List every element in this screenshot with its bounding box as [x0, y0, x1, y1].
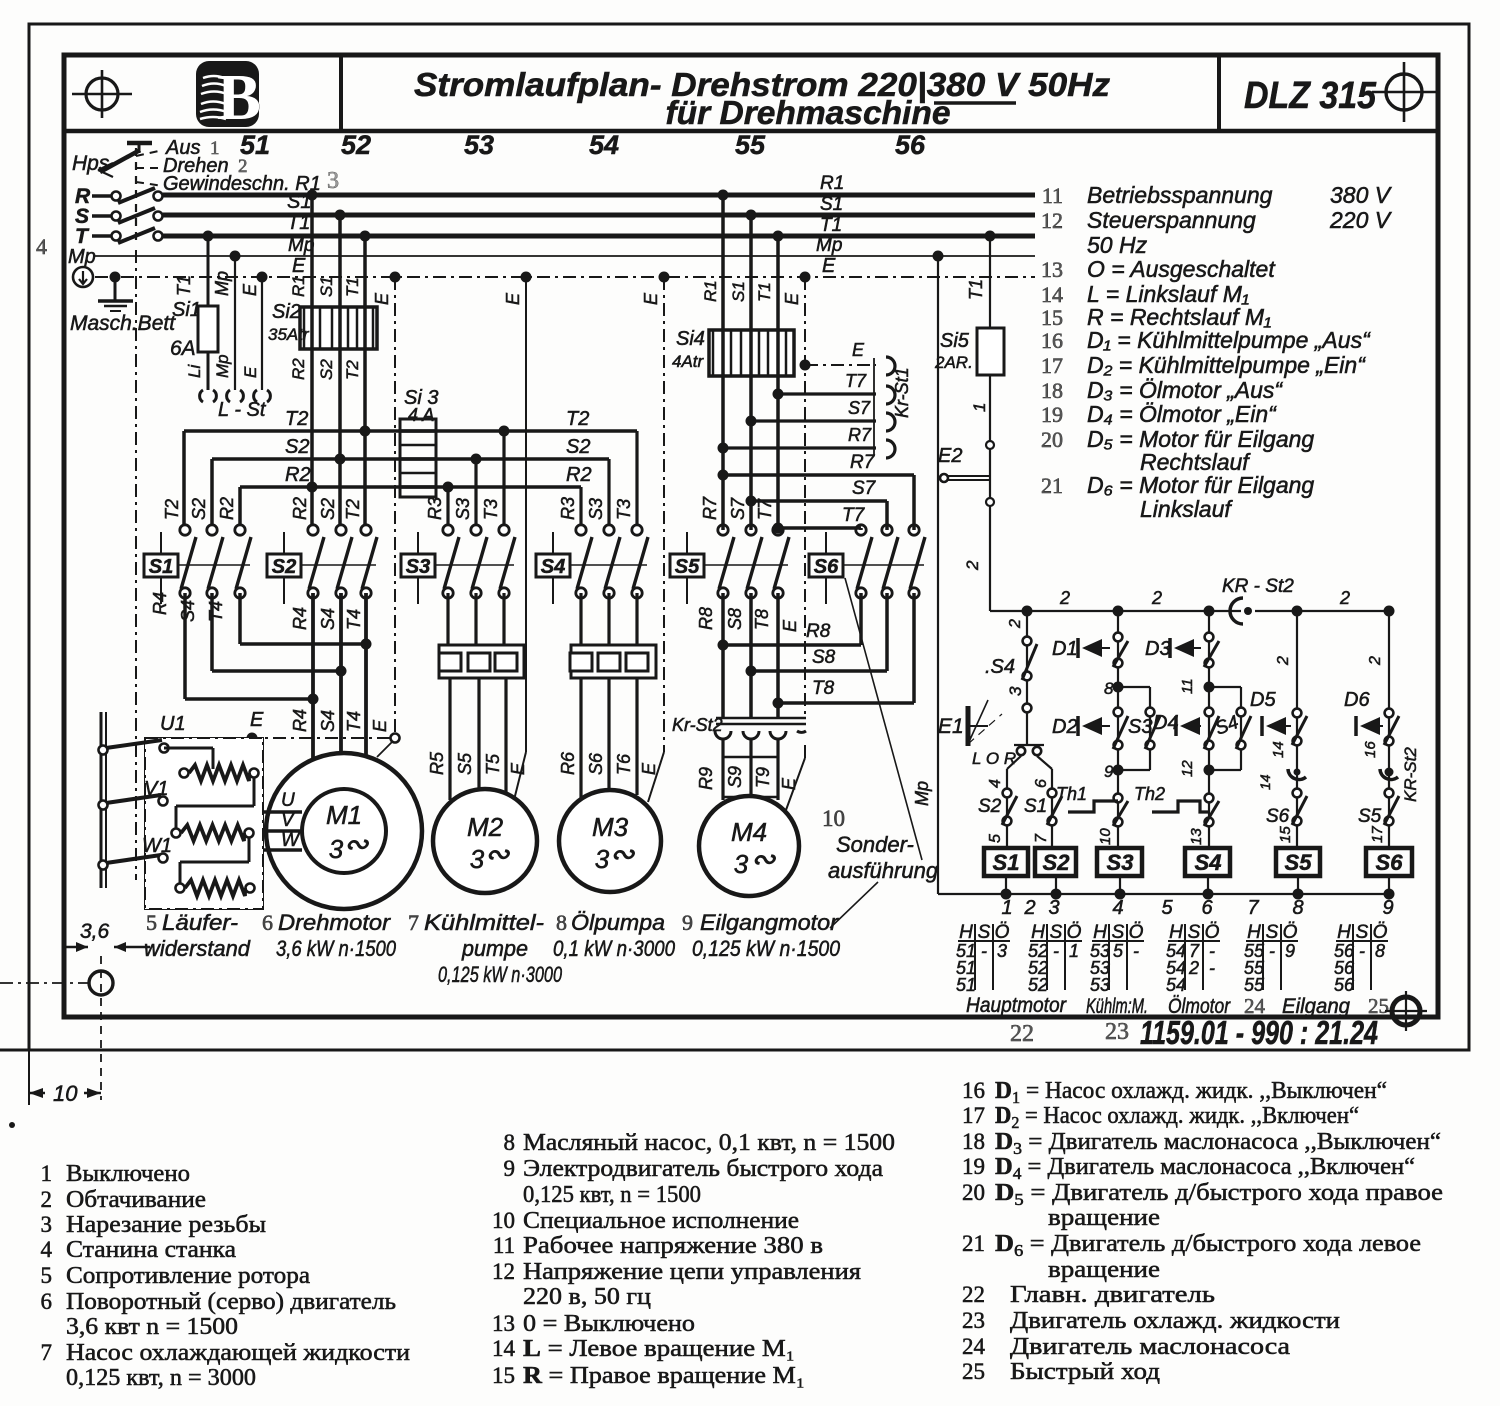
contactor S6 contact at x=887	[882, 525, 892, 535]
svg-text:Si5: Si5	[940, 330, 970, 352]
control column D6 S5	[1388, 611, 1390, 848]
svg-text:24: 24	[962, 1334, 986, 1359]
svg-text:DLZ 315: DLZ 315	[1244, 75, 1377, 117]
svg-text:12: 12	[492, 1259, 515, 1284]
svg-text:Betriebsspannung: Betriebsspannung	[1087, 182, 1273, 208]
svg-text:22: 22	[1010, 1021, 1034, 1047]
wire R4 from S1	[183, 593, 187, 699]
svg-text:2: 2	[1007, 619, 1024, 629]
svg-text:2: 2	[1059, 588, 1070, 608]
svg-text:4: 4	[1112, 897, 1123, 919]
svg-text:15: 15	[1041, 305, 1063, 330]
hole centerline vertical	[100, 956, 102, 1100]
svg-text:3: 3	[329, 834, 344, 864]
mounting hole	[89, 971, 113, 995]
svg-text:вращение: вращение	[1048, 1205, 1160, 1231]
svg-text:R1: R1	[289, 275, 308, 297]
svg-text:Kr-St1: Kr-St1	[892, 367, 912, 418]
svg-text:T1: T1	[966, 279, 986, 300]
svg-text:S9: S9	[725, 766, 745, 788]
svg-text:E: E	[852, 340, 865, 360]
svg-text:T4: T4	[344, 609, 364, 630]
svg-text:R3: R3	[425, 497, 445, 520]
motor M3	[559, 790, 661, 892]
svg-text:53: 53	[1090, 975, 1110, 995]
svg-text:S4: S4	[318, 608, 338, 630]
svg-text:Kühlmittel-: Kühlmittel-	[424, 910, 544, 935]
thermal overload relay M3	[579, 593, 582, 645]
rotor switch blade 3	[99, 861, 108, 870]
svg-text:5: 5	[1113, 941, 1124, 961]
svg-text:8: 8	[556, 910, 567, 935]
svg-text:W1: W1	[142, 835, 172, 857]
svg-text:Главн. двигатель: Главн. двигатель	[1010, 1282, 1215, 1308]
svg-text:52: 52	[341, 130, 371, 160]
svg-text:L = Левое вращение М₁: L = Левое вращение М₁	[523, 1336, 795, 1362]
svg-text:12: 12	[1041, 208, 1063, 233]
svg-text:S6: S6	[1266, 806, 1290, 827]
svg-text:S5: S5	[1285, 850, 1313, 875]
fuse Si1 6A	[198, 306, 218, 352]
ground symbol	[73, 267, 93, 287]
svg-text:S: S	[1266, 922, 1279, 943]
svg-text:55: 55	[1244, 975, 1265, 995]
svg-text:52: 52	[1028, 975, 1048, 995]
svg-text:T6: T6	[614, 753, 634, 775]
svg-text:16: 16	[1041, 328, 1063, 353]
main switch Hps lever	[100, 150, 140, 172]
svg-text:S1: S1	[149, 556, 173, 578]
wire T4 from S1	[238, 593, 242, 644]
wire T1 drop to Si2	[363, 236, 367, 530]
svg-text:2AR.: 2AR.	[934, 353, 973, 372]
svg-text:9: 9	[1382, 897, 1393, 919]
wire T1 drop to Si5	[989, 236, 991, 611]
underline 380V	[934, 101, 1016, 105]
contactor S6 contact at x=914	[909, 525, 919, 535]
svg-text:R4: R4	[290, 709, 310, 732]
svg-text:S2: S2	[189, 498, 209, 520]
svg-text:Нарезание резьбы: Нарезание резьбы	[66, 1212, 266, 1238]
svg-text:pumpe: pumpe	[461, 936, 528, 961]
svg-text:S1: S1	[317, 276, 336, 297]
svg-text:R7: R7	[700, 496, 720, 520]
svg-text:S5: S5	[675, 556, 700, 578]
inner border frame	[64, 55, 1438, 1017]
control column D3 Th2 S4	[1208, 611, 1210, 848]
svg-text:1: 1	[1001, 897, 1012, 919]
svg-text:3,6: 3,6	[80, 920, 110, 943]
svg-text:W: W	[281, 830, 301, 851]
svg-text:S2: S2	[1043, 850, 1071, 875]
wire E col54	[663, 277, 665, 752]
svg-text:S6: S6	[1376, 850, 1404, 875]
svg-text:E: E	[641, 292, 661, 305]
contactor S2 coil box	[267, 554, 301, 577]
svg-text:S5: S5	[455, 752, 475, 775]
wire S1 drop to Si2	[338, 215, 342, 530]
svg-text:∾: ∾	[750, 843, 776, 876]
rotor switch blade 2	[99, 801, 108, 810]
svg-text:7: 7	[1033, 833, 1050, 843]
svg-text:3: 3	[595, 844, 610, 874]
contactor S6 linkage	[843, 564, 924, 566]
svg-text:1159.01 - 990 : 21.24: 1159.01 - 990 : 21.24	[1140, 1014, 1378, 1051]
svg-text:21: 21	[962, 1231, 985, 1256]
svg-text:7: 7	[41, 1340, 53, 1365]
connector Kr-St1	[873, 358, 875, 455]
svg-text:5: 5	[146, 910, 157, 935]
coil S6	[1366, 848, 1412, 876]
svg-text:.S4: .S4	[985, 656, 1015, 678]
svg-text:S: S	[1356, 922, 1369, 943]
rail E dash-dot	[95, 276, 1035, 278]
svg-text:Kühlm:M.: Kühlm:M.	[1086, 995, 1148, 1018]
svg-text:T7: T7	[842, 505, 866, 526]
svg-text:O = Ausgeschaltet: O = Ausgeschaltet	[1087, 256, 1276, 282]
svg-text:Läufer-: Läufer-	[162, 910, 238, 935]
svg-text:-: -	[1269, 941, 1275, 961]
svg-text:4 A: 4 A	[408, 405, 434, 425]
switch blade T	[118, 228, 155, 243]
svg-text:S3: S3	[586, 498, 606, 520]
contactor S2 linkage	[301, 564, 376, 566]
thermal overload relay M2	[446, 593, 449, 645]
contactor S6 coil box	[809, 554, 843, 577]
svg-text:T9: T9	[753, 767, 773, 788]
svg-text:-: -	[1133, 941, 1139, 961]
svg-text:R2: R2	[217, 497, 237, 520]
svg-text:3: 3	[997, 941, 1007, 961]
svg-text:Mp: Mp	[212, 271, 232, 296]
svg-text:380 V: 380 V	[1330, 182, 1393, 208]
rail T1	[163, 234, 1035, 239]
svg-text:51: 51	[956, 975, 976, 995]
svg-text:3,6 квт n = 1500: 3,6 квт n = 1500	[66, 1314, 238, 1340]
svg-text:Th1: Th1	[1056, 784, 1087, 804]
svg-text:2: 2	[1023, 897, 1035, 919]
svg-text:T3: T3	[614, 499, 634, 520]
svg-text:-: -	[981, 941, 987, 961]
svg-text:S2: S2	[566, 436, 590, 458]
svg-text:R1: R1	[701, 280, 720, 302]
svg-text:6: 6	[1201, 897, 1213, 919]
svg-text:S2: S2	[272, 556, 296, 578]
svg-text:0,125 квт, n = 3000: 0,125 квт, n = 3000	[66, 1365, 256, 1391]
contactor S1 coil box	[144, 554, 178, 577]
svg-text:Ö: Ö	[1129, 922, 1144, 943]
fuse Si5 2AR	[977, 328, 1004, 375]
svg-text:Масляный насос, 0,1 квт, n = 1: Масляный насос, 0,1 квт, n = 1500	[523, 1130, 895, 1156]
svg-text:10: 10	[492, 1208, 515, 1233]
wire R1 drop to Si2	[310, 195, 314, 530]
svg-text:E: E	[372, 292, 392, 305]
registration crosshair left	[86, 78, 118, 110]
svg-text:T3: T3	[481, 499, 501, 520]
svg-text:R7: R7	[848, 425, 872, 445]
contactor S6 contact at x=861	[856, 525, 866, 535]
svg-text:14: 14	[492, 1336, 516, 1361]
svg-text:14: 14	[1270, 741, 1287, 758]
svg-text:S3: S3	[406, 556, 430, 578]
svg-text:2: 2	[963, 560, 982, 571]
svg-text:E: E	[822, 255, 836, 277]
wire E to Kr-St1	[805, 364, 876, 366]
svg-text:B: B	[217, 61, 261, 134]
svg-text:∾: ∾	[343, 828, 369, 861]
svg-text:T1: T1	[174, 275, 194, 296]
svg-text:19: 19	[1041, 402, 1063, 427]
wire S1 drop to Si4	[749, 215, 753, 530]
svg-text:Linkslauf: Linkslauf	[1140, 496, 1233, 522]
svg-text:50 Hz: 50 Hz	[1087, 232, 1148, 258]
wire Mp drop control	[937, 256, 939, 894]
svg-text:13: 13	[492, 1311, 515, 1336]
svg-text:11: 11	[1179, 678, 1196, 694]
svg-text:R6: R6	[558, 751, 578, 775]
rail S1	[163, 213, 1035, 218]
svg-text:R1: R1	[820, 173, 844, 194]
svg-text:9: 9	[504, 1156, 516, 1181]
svg-text:D5: D5	[1250, 689, 1276, 711]
svg-text:13: 13	[1041, 257, 1063, 282]
svg-text:14: 14	[1257, 774, 1273, 790]
contactor S3 coil box	[401, 554, 435, 577]
svg-text:Напряжение цепи управления: Напряжение цепи управления	[523, 1259, 861, 1285]
svg-text:35Atr: 35Atr	[268, 325, 310, 344]
rotor resistor 1	[180, 769, 189, 778]
svg-text:R4: R4	[150, 592, 170, 615]
svg-text:вращение: вращение	[1048, 1257, 1160, 1283]
svg-text:S2: S2	[978, 796, 1002, 817]
M1 stator terminals U V W	[264, 810, 302, 814]
contactor S4 linkage	[570, 564, 647, 566]
wire T8	[776, 593, 780, 718]
svg-text:V1: V1	[144, 778, 168, 800]
rotor switch blade 1	[99, 746, 108, 755]
svg-text:3: 3	[327, 168, 339, 194]
svg-text:Ö: Ö	[1067, 922, 1082, 943]
svg-text:R2: R2	[566, 464, 592, 486]
svg-text:15: 15	[492, 1363, 515, 1388]
svg-text:D₃ = Ölmotor „Aus“: D₃ = Ölmotor „Aus“	[1087, 377, 1283, 403]
svg-text:S1: S1	[993, 850, 1020, 875]
contactor S2 contact at x=341	[336, 525, 346, 535]
wire S7 branch to S6	[751, 499, 887, 503]
rotor resistor 3	[176, 884, 185, 893]
hole centerline horizontal	[0, 982, 90, 984]
svg-text:S8: S8	[725, 608, 745, 630]
svg-text:11: 11	[493, 1233, 515, 1258]
dimension 10	[29, 1092, 45, 1095]
svg-text:10: 10	[53, 1081, 78, 1106]
svg-text:Mp: Mp	[68, 246, 96, 268]
wire E into M2	[514, 752, 526, 800]
svg-text:L - St: L - St	[218, 399, 267, 421]
svg-text:0 = Выключено: 0 = Выключено	[523, 1311, 695, 1337]
svg-text:ausführung: ausführung	[828, 858, 939, 883]
svg-text:6: 6	[41, 1289, 53, 1314]
svg-text:T2: T2	[343, 499, 363, 520]
rotor resistor 2	[172, 829, 181, 838]
svg-text:E: E	[782, 292, 802, 305]
svg-text:20: 20	[962, 1180, 985, 1205]
wire E drop	[261, 277, 263, 390]
svg-text:4: 4	[41, 1237, 53, 1262]
contactor S3 contact at x=448	[443, 525, 453, 535]
svg-text:2: 2	[1275, 656, 1292, 666]
svg-text:T4: T4	[206, 601, 226, 622]
leader line Sonderausfuehrung	[845, 578, 922, 860]
svg-text:H: H	[1337, 922, 1351, 943]
contactor S1 contact at x=240	[235, 525, 245, 535]
outer border frame	[29, 24, 1469, 1050]
svg-text:56: 56	[1334, 975, 1355, 995]
registration crosshair right	[1386, 74, 1422, 110]
wire R8	[721, 593, 725, 718]
control column D1 Th1 S3	[1117, 611, 1119, 848]
svg-text:Steuerspannung: Steuerspannung	[1087, 207, 1256, 233]
svg-text:R3: R3	[558, 497, 578, 520]
contactor S3 linkage	[435, 564, 514, 566]
svg-text:5: 5	[41, 1263, 53, 1288]
svg-text:Eilgangmotor: Eilgangmotor	[700, 910, 840, 935]
svg-text:T: T	[75, 225, 90, 248]
svg-text:4Atr: 4Atr	[672, 352, 705, 371]
contactor S2 contact at x=313	[308, 525, 318, 535]
svg-text:KR - St2: KR - St2	[1222, 576, 1294, 597]
svg-text:18: 18	[1041, 378, 1063, 403]
svg-text:4: 4	[987, 779, 1004, 788]
contactor S4 contact at x=609	[604, 525, 614, 535]
svg-text:-: -	[1209, 958, 1215, 978]
svg-text:220 V: 220 V	[1329, 207, 1393, 233]
svg-text:T1: T1	[343, 277, 362, 297]
contactor S1 contact at x=212	[207, 525, 217, 535]
svg-text:T1: T1	[755, 282, 774, 302]
svg-text:9: 9	[1104, 762, 1114, 781]
svg-text:Ö: Ö	[1283, 922, 1298, 943]
svg-text:Sonder-: Sonder-	[836, 832, 914, 857]
svg-text:Masch.Bett: Masch.Bett	[70, 312, 176, 335]
title block divider lines	[64, 129, 1438, 134]
svg-text:Двигатель маслонасоса: Двигатель маслонасоса	[1010, 1334, 1290, 1360]
svg-text:R2: R2	[285, 464, 311, 486]
wire E into M3	[648, 752, 664, 802]
svg-text:20: 20	[1041, 427, 1063, 452]
coil S5	[1276, 848, 1320, 876]
svg-text:S: S	[1188, 922, 1201, 943]
svg-text:E: E	[370, 719, 390, 732]
switch blade R	[118, 188, 155, 203]
svg-text:0,125 kW n·3000: 0,125 kW n·3000	[438, 962, 563, 987]
rotor switch rails	[100, 712, 103, 888]
svg-text:Двигатель охлажд. жидкости: Двигатель охлажд. жидкости	[1010, 1308, 1340, 1334]
svg-text:2: 2	[1151, 588, 1162, 608]
svg-text:E: E	[639, 762, 659, 775]
svg-text:D₄ = Ölmotor „Ein“: D₄ = Ölmotor „Ein“	[1087, 401, 1277, 427]
rail R1	[163, 193, 1035, 198]
svg-text:15: 15	[1277, 826, 1294, 843]
svg-text:S4: S4	[1195, 850, 1222, 875]
contactor S2 contact at x=366	[361, 525, 371, 535]
svg-text:D2 = Насос охлажд. жидк. ,,Вкл: D2 = Насос охлажд. жидк. ,,Включен“	[995, 1103, 1359, 1132]
svg-text:E1: E1	[938, 715, 964, 738]
svg-text:Mp: Mp	[912, 781, 932, 806]
svg-text:3: 3	[1048, 897, 1059, 919]
svg-text:S1: S1	[729, 281, 748, 302]
motor M2	[433, 789, 537, 893]
svg-text:R7: R7	[850, 452, 876, 473]
svg-text:Li: Li	[185, 364, 204, 378]
svg-text:17: 17	[1041, 353, 1063, 378]
contactor S3 contact at x=504	[499, 525, 509, 535]
svg-text:H: H	[1247, 922, 1261, 943]
svg-text:S2: S2	[318, 498, 338, 520]
contactor S5 contact at x=751	[746, 525, 756, 535]
selector E1	[966, 706, 971, 746]
svg-text:2: 2	[1339, 588, 1350, 608]
svg-text:Рабочее напряжение 380 в: Рабочее напряжение 380 в	[523, 1233, 823, 1259]
svg-text:Drehmotor: Drehmotor	[278, 910, 392, 935]
contactor S3 contact at x=476	[471, 525, 481, 535]
svg-text:21: 21	[1041, 473, 1063, 498]
wire T1 drop to Si1	[207, 236, 210, 390]
svg-text:S: S	[1050, 922, 1063, 943]
svg-text:D4 = Двигатель маслонасоса ,,В: D4 = Двигатель маслонасоса ,,Включен“	[995, 1154, 1415, 1183]
svg-text:H: H	[1031, 922, 1045, 943]
fuse Si2 35Atr	[300, 307, 377, 349]
wire S4 from S1	[210, 593, 214, 671]
svg-text:16: 16	[1362, 741, 1379, 758]
motor M1	[266, 753, 422, 909]
label boxes S9 T9	[723, 757, 751, 797]
svg-text:R2: R2	[289, 358, 308, 380]
wire R1 drop to Si4	[721, 195, 725, 530]
svg-text:Ö: Ö	[1373, 922, 1388, 943]
svg-text:14: 14	[1041, 282, 1063, 307]
svg-text:Обтачивание: Обтачивание	[66, 1187, 206, 1213]
svg-text:5: 5	[1161, 897, 1173, 919]
svg-text:3: 3	[470, 844, 485, 874]
svg-text:T1: T1	[820, 215, 842, 236]
wires Kr-St2 to M4	[721, 738, 724, 800]
svg-text:E: E	[241, 366, 260, 378]
svg-text:220 в, 50 гц: 220 в, 50 гц	[523, 1284, 651, 1310]
wire E drop col52	[394, 277, 396, 739]
svg-text:T2: T2	[343, 360, 362, 380]
contactor S4 contact at x=581	[576, 525, 586, 535]
svg-text:D₂ = Kühlmittelpumpe „Ein“: D₂ = Kühlmittelpumpe „Ein“	[1087, 352, 1366, 378]
switch blade S	[118, 208, 155, 223]
svg-text:Сопротивление ротора: Сопротивление ротора	[66, 1263, 310, 1289]
svg-text:L O R: L O R	[972, 749, 1016, 768]
svg-text:R2: R2	[290, 497, 310, 520]
svg-text:S: S	[1112, 922, 1125, 943]
svg-text:10: 10	[822, 806, 845, 831]
svg-text:T2: T2	[162, 499, 182, 520]
svg-text:1: 1	[970, 403, 989, 412]
svg-text:12: 12	[1179, 760, 1196, 777]
motor M4	[699, 796, 799, 896]
svg-text:5: 5	[987, 834, 1004, 843]
svg-text:KR-St2: KR-St2	[1401, 747, 1420, 802]
coil S1	[984, 848, 1028, 876]
rotor resistance dashed box	[145, 738, 263, 909]
svg-text:0,1 kW n·3000: 0,1 kW n·3000	[553, 936, 676, 961]
svg-text:Th2: Th2	[1134, 784, 1165, 804]
svg-text:T2: T2	[285, 408, 308, 430]
